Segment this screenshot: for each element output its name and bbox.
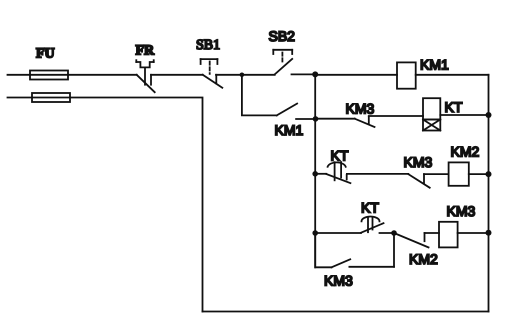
svg-text:SB2: SB2 (269, 28, 296, 44)
svg-text:FR: FR (136, 44, 156, 59)
svg-text:KM1: KM1 (420, 57, 449, 73)
contact KM1 (self-latch branch) (242, 75, 316, 119)
fuse FU (upper) (30, 71, 68, 80)
wire rail to contact KT rung3 (315, 173, 326, 175)
svg-text:KM3: KM3 (324, 273, 353, 289)
thermal relay contact FR (136, 60, 154, 92)
svg-text:KM3: KM3 (447, 203, 476, 219)
svg-text:KM1: KM1 (275, 122, 304, 138)
pushbutton SB2 (NO) (273, 50, 292, 75)
node rung2 left junction (313, 116, 319, 122)
wire KM3 to coil KM2 (424, 173, 449, 175)
node rung4 left junction (312, 230, 318, 236)
wire SB1 to node A (216, 74, 242, 76)
coil KM3 (439, 222, 458, 248)
wire coil KM1 to right rail (416, 74, 489, 76)
right rail (488, 75, 490, 312)
wire latch branch up-right (393, 233, 395, 267)
svg-text:SB1: SB1 (196, 38, 220, 53)
svg-text:KT: KT (361, 200, 379, 216)
coil KT (time relay with delay box) (423, 98, 440, 130)
node rung3 right junction (486, 171, 492, 177)
node C junction (391, 230, 397, 236)
wire L1 left segment (8, 74, 31, 76)
wire latch branch down-left (315, 233, 331, 267)
wire KM3 to coil KT (369, 115, 423, 117)
svg-text:KT: KT (331, 148, 349, 164)
contact KM3 NO (latch branch) (332, 259, 395, 267)
wire KT to contact KM3 rung3 (347, 173, 408, 175)
coil KM2 (449, 162, 469, 185)
svg-text:KM2: KM2 (409, 251, 438, 267)
wire L2 left segment (8, 97, 33, 99)
pushbutton SB1 (NC) (201, 59, 223, 88)
node B junction (312, 71, 318, 77)
wire fuse1 to FR (68, 74, 137, 76)
wire node A to SB2 (242, 74, 275, 76)
wire node B to coil KM1 (315, 74, 397, 76)
wire coil KT to right rail (440, 114, 488, 116)
contact KM3 NC (rung 2) (316, 117, 375, 128)
contact KT delayed (rung 3) (326, 162, 350, 183)
wire L2 to corner and down (70, 98, 203, 312)
wire FR to SB1 (151, 74, 203, 76)
contact KM2 NC (rung 4) (394, 233, 429, 247)
wire KT to node C (380, 232, 395, 234)
contact KM3 NC (rung 3) (408, 174, 429, 188)
fuse FU (lower) (32, 93, 70, 102)
wire coil KM3 to right rail (458, 232, 489, 234)
svg-text:KM3: KM3 (404, 154, 433, 170)
svg-text:KM2: KM2 (451, 144, 480, 160)
node rung2 right junction (486, 112, 492, 118)
contact KT delayed (rung 4) (361, 217, 384, 233)
wire SB2 to node B (292, 73, 316, 75)
wire coil KM2 to right rail (469, 173, 489, 175)
node rung4 right junction (486, 230, 492, 236)
svg-text:KM3: KM3 (346, 101, 375, 117)
wire bottom rail (203, 311, 489, 313)
wire rail to contact KT rung4 (315, 232, 361, 234)
coil KM1 (397, 62, 416, 88)
svg-text:FU: FU (36, 47, 55, 62)
wire KM2 to coil KM3 (425, 232, 440, 234)
node A junction (240, 73, 245, 78)
node rung3 left junction (312, 171, 318, 177)
svg-text:KT: KT (445, 99, 463, 115)
left rail (314, 74, 316, 267)
